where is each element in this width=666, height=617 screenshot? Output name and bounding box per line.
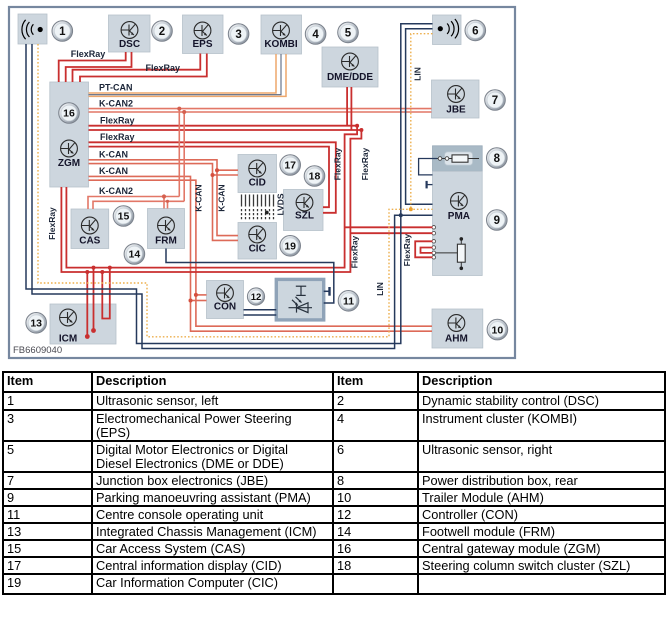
svg-text:7: 7 bbox=[492, 95, 498, 107]
svg-text:FlexRay: FlexRay bbox=[71, 49, 106, 59]
wire: FlexRay EPS-ZGM line 1 bbox=[73, 54, 201, 83]
svg-text:FlexRay: FlexRay bbox=[47, 207, 57, 240]
wire: LIN orange dotted sensor6 drop bbox=[411, 34, 433, 210]
item circle 7 bbox=[485, 90, 506, 111]
ultrasonic sensor left (item 1) bbox=[18, 14, 47, 44]
svg-text:CID: CID bbox=[249, 178, 266, 189]
wire: FlexRay drop into ICM stub 2 bbox=[93, 268, 95, 331]
connector pins PMA left edge bbox=[432, 226, 436, 260]
item circle 5 bbox=[338, 22, 359, 43]
svg-text:PT-CAN: PT-CAN bbox=[99, 83, 133, 93]
item circle 6 bbox=[465, 20, 486, 41]
svg-text:K-CAN: K-CAN bbox=[99, 150, 128, 160]
bus label K-CAN2 (row 1) bbox=[99, 99, 133, 109]
junction dots ICM drops bbox=[85, 266, 112, 339]
junction dots K-CAN2 FRM drop bbox=[162, 194, 169, 203]
box PMA bbox=[433, 171, 483, 275]
svg-text:FlexRay: FlexRay bbox=[360, 147, 370, 180]
junction dots K-CAN2 link bbox=[177, 107, 186, 114]
svg-text:DSC: DSC bbox=[119, 39, 140, 50]
bus label FlexRay (DSC) bbox=[71, 49, 106, 59]
svg-text:KOMBI: KOMBI bbox=[264, 39, 298, 50]
svg-text:18: 18 bbox=[309, 171, 321, 183]
resistor terminator in PMA bbox=[435, 237, 465, 270]
svg-text:10: 10 bbox=[492, 324, 504, 336]
item circle 14 bbox=[124, 244, 145, 265]
svg-text:16: 16 bbox=[63, 108, 75, 120]
power distribution box rear (item 8) bbox=[433, 146, 483, 172]
bus label FlexRay vertical left bbox=[47, 207, 57, 240]
svg-text:FlexRay: FlexRay bbox=[402, 233, 412, 266]
wire: PT-CAN ZGM-KOMBI navy core line bbox=[89, 54, 282, 95]
svg-text:CAS: CAS bbox=[79, 236, 100, 247]
LVDS link CID-CIC bbox=[242, 195, 274, 221]
box ICM (item 13) bbox=[50, 304, 116, 345]
svg-text:17: 17 bbox=[284, 160, 296, 172]
box JBE bbox=[432, 80, 480, 118]
bus label K-CAN vertical 1 bbox=[194, 184, 204, 211]
svg-text:ZGM: ZGM bbox=[58, 158, 80, 169]
svg-text:FlexRay: FlexRay bbox=[100, 116, 135, 126]
box CIC bbox=[238, 223, 277, 260]
bus label PT-CAN bbox=[99, 83, 133, 93]
centre console operating unit (item 11) bbox=[276, 279, 323, 320]
wire: FlexRay trunk ZGM-ICM-PMA-row1 line 1 bbox=[66, 126, 357, 268]
svg-text:LIN: LIN bbox=[375, 282, 385, 296]
svg-text:11: 11 bbox=[343, 296, 354, 308]
figure number FB6609040 bbox=[13, 345, 62, 356]
svg-text:8: 8 bbox=[494, 153, 501, 165]
svg-text:4: 4 bbox=[312, 29, 319, 41]
svg-text:FlexRay: FlexRay bbox=[333, 147, 343, 180]
bus label FlexRay (EPS) bbox=[146, 63, 181, 73]
bus label FlexRay (row 1) bbox=[100, 116, 135, 126]
svg-text:FlexRay: FlexRay bbox=[350, 235, 360, 268]
terminator stub PMA top bbox=[427, 181, 433, 189]
wire: LIN orange dotted sensor1 loop to PMA bbox=[38, 44, 433, 337]
svg-text:K-CAN2: K-CAN2 bbox=[99, 186, 133, 196]
box DME/DDE bbox=[322, 47, 378, 87]
box FRM bbox=[148, 209, 185, 249]
bus label FlexRay (row 2) bbox=[100, 132, 135, 142]
svg-text:1: 1 bbox=[59, 26, 66, 38]
svg-text:CON: CON bbox=[214, 302, 236, 313]
wire: fuse loop box8 to PMA bbox=[419, 159, 437, 175]
svg-text:JBE: JBE bbox=[446, 105, 466, 116]
svg-text:FRM: FRM bbox=[155, 236, 177, 247]
wire: K-CAN branch to CON pair bbox=[191, 295, 207, 301]
box CID bbox=[238, 155, 277, 193]
box CAS bbox=[71, 209, 109, 249]
item circle 16 bbox=[59, 103, 80, 124]
box SZL bbox=[284, 190, 324, 231]
svg-text:EPS: EPS bbox=[192, 39, 212, 50]
svg-text:9: 9 bbox=[494, 215, 500, 227]
bus label LIN top bbox=[413, 67, 423, 81]
bus label FlexRay vertical right bbox=[402, 233, 412, 266]
svg-text:14: 14 bbox=[129, 249, 141, 261]
svg-text:3: 3 bbox=[235, 29, 241, 41]
svg-text:13: 13 bbox=[30, 318, 42, 330]
wire: FlexRay DSC-ZGM line 2 bbox=[66, 52, 132, 82]
wire: K-CAN2 ZGM-CAS-FRM pair bbox=[88, 197, 184, 210]
svg-text:FB6609040: FB6609040 bbox=[13, 345, 62, 356]
box EPS bbox=[183, 15, 224, 54]
junction dots K-CAN CON branch bbox=[189, 293, 198, 303]
svg-text:CIC: CIC bbox=[249, 244, 266, 255]
bus label K-CAN (row 2) bbox=[99, 166, 128, 176]
box CON bbox=[207, 281, 244, 319]
box DSC bbox=[109, 15, 151, 52]
wire: K-CAN branch to CID pair bbox=[213, 170, 239, 175]
svg-text:K-CAN: K-CAN bbox=[217, 184, 227, 211]
diagram outer frame bbox=[9, 7, 515, 358]
item circle 1 bbox=[52, 21, 73, 42]
svg-text:PMA: PMA bbox=[448, 211, 470, 222]
item circle 12 bbox=[247, 288, 264, 305]
wire: FlexRay loopback at PMA outer bbox=[415, 241, 432, 257]
item circle 11 bbox=[338, 291, 359, 312]
wire: K-CAN ZGM-CID-CIC pair bbox=[89, 160, 239, 241]
bus label K-CAN (row 1) bbox=[99, 150, 128, 160]
svg-text:6: 6 bbox=[472, 25, 478, 37]
svg-text:SZL: SZL bbox=[295, 211, 314, 222]
wire: CON to box 11 pair bbox=[244, 310, 277, 315]
item circle 19 bbox=[280, 236, 301, 257]
svg-text:DME/DDE: DME/DDE bbox=[327, 72, 373, 83]
ultrasonic sensor right (item 6) bbox=[433, 15, 462, 45]
bus label FlexRay vertical middle bbox=[350, 235, 360, 268]
junction dots K-CAN CID branch bbox=[211, 168, 220, 177]
bus label LVDS vertical bbox=[276, 193, 286, 215]
box AHM bbox=[432, 309, 483, 348]
svg-text:12: 12 bbox=[251, 292, 262, 303]
svg-text:K-CAN: K-CAN bbox=[99, 166, 128, 176]
item circle 8 bbox=[487, 148, 508, 169]
wire: PT-CAN ZGM-KOMBI orange line 1 bbox=[89, 54, 277, 93]
svg-text:ICM: ICM bbox=[59, 334, 77, 345]
item circle 4 bbox=[305, 24, 326, 45]
svg-text:K-CAN2: K-CAN2 bbox=[99, 99, 133, 109]
bus label K-CAN2 (row 3) bbox=[99, 186, 133, 196]
wire: FlexRay ZGM-SZL pair bbox=[89, 142, 336, 213]
wire: PT-CAN ZGM-KOMBI orange line 2 bbox=[89, 54, 287, 96]
bus label FlexRay vertical DME drop bbox=[333, 147, 343, 180]
wire: LIN navy line 3 sensor6 to PMA bbox=[406, 29, 433, 205]
svg-text:AHM: AHM bbox=[445, 334, 468, 345]
wire: FlexRay trunk ZGM-ICM-PMA-row1 line 2 bbox=[61, 130, 361, 272]
junction dot LIN dotted bbox=[409, 207, 413, 211]
junction dot LIN at PMA branch bbox=[399, 213, 403, 217]
bus label K-CAN vertical 2 bbox=[217, 184, 227, 211]
wire: LIN navy line 2 sensor1-bottom-sensor6 bbox=[32, 44, 433, 349]
wire: K-CAN ZGM-AHM pair bbox=[89, 176, 433, 331]
svg-text:2: 2 bbox=[159, 26, 165, 38]
terminator stub box 11 bbox=[324, 287, 330, 296]
svg-text:19: 19 bbox=[284, 241, 296, 253]
wire: K-CAN2 link rows pair bbox=[179, 109, 184, 202]
svg-text:FlexRay: FlexRay bbox=[100, 132, 135, 142]
box KOMBI bbox=[261, 15, 302, 54]
item circle 13 bbox=[26, 313, 47, 334]
item circle 17 bbox=[280, 155, 301, 176]
wire: FlexRay ZGM-DME/DDE pair bbox=[89, 87, 362, 130]
wire: FlexRay loop in ICM bbox=[102, 268, 110, 319]
box ZGM (item 16) bbox=[50, 82, 89, 187]
svg-text:K-CAN: K-CAN bbox=[194, 184, 204, 211]
bus label FlexRay vertical branch bbox=[360, 147, 370, 180]
item circle 18 bbox=[304, 166, 325, 187]
wire: FlexRay trunk branch into PMA bbox=[345, 227, 433, 233]
svg-text:LIN: LIN bbox=[413, 67, 423, 81]
wire: LIN navy line 1 sensor1-bottom-sensor6 bbox=[26, 24, 433, 344]
item circle 3 bbox=[228, 24, 249, 45]
bus label LIN bottom bbox=[375, 282, 385, 296]
wire: FlexRay EPS-ZGM line 2 bbox=[80, 54, 207, 83]
wire: K-CAN2 ZGM-JBE pair bbox=[89, 109, 432, 112]
svg-text:FlexRay: FlexRay bbox=[146, 63, 181, 73]
svg-text:15: 15 bbox=[118, 211, 130, 223]
junction dots FlexRay branch bbox=[355, 124, 363, 132]
item circle 10 bbox=[487, 319, 508, 340]
svg-text:5: 5 bbox=[345, 27, 352, 39]
item circle 15 bbox=[113, 206, 134, 227]
item circle 2 bbox=[152, 21, 173, 42]
wire: FlexRay DSC-ZGM line 1 bbox=[59, 52, 126, 82]
wire: FlexRay loopback at PMA inner bbox=[421, 248, 433, 253]
wire: FlexRay drop into ICM stub 1 bbox=[86, 272, 88, 337]
item circle 9 bbox=[487, 210, 508, 231]
wire: MOST FRM to box 11 bbox=[166, 249, 334, 304]
svg-text:LVDS: LVDS bbox=[276, 193, 286, 215]
